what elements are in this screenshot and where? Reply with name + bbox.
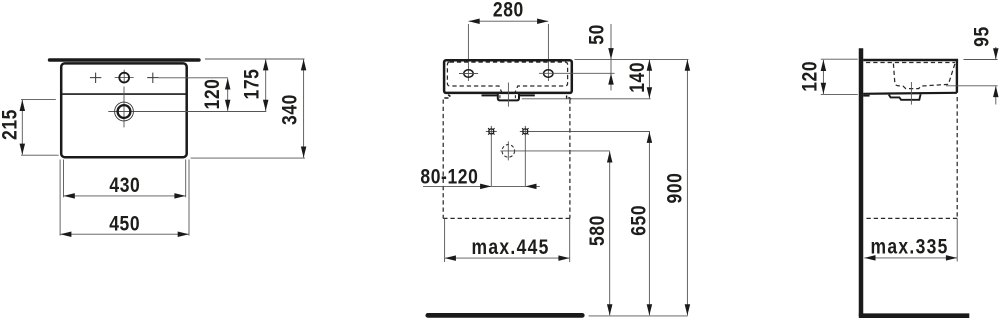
foot left front <box>448 95 450 97</box>
dim 900 arrow up <box>685 60 691 71</box>
basin front edge side <box>956 60 958 93</box>
drain axis centerline front <box>507 83 509 107</box>
dim 450 arrow left <box>60 231 71 237</box>
svg-text:900: 900 <box>664 173 687 204</box>
dim 140 arrow down <box>647 87 653 98</box>
svg-text:140: 140 <box>626 62 649 93</box>
floor bar front view <box>428 313 583 318</box>
dim 900 arrow down <box>685 304 691 315</box>
dim 340 arrow up <box>301 59 307 70</box>
drain centerline horizontal + ext to 120/175 dims <box>108 111 266 113</box>
dim 140 bottom ext <box>522 98 651 100</box>
dashed envelope right vertical side <box>956 97 958 218</box>
dashed envelope left vertical <box>442 100 444 219</box>
svg-text:450: 450 <box>109 213 140 236</box>
svg-text:120: 120 <box>799 61 822 92</box>
svg-text:120: 120 <box>202 79 225 110</box>
hidden bowl outline dashed front <box>447 62 567 93</box>
separation line tap deck <box>62 93 185 95</box>
tap hole ellipse right crosshair + ext to 50 dim <box>539 72 615 74</box>
wall bar side view <box>859 48 864 316</box>
dim 120 side arrow up <box>821 60 827 71</box>
svg-text:215: 215 <box>0 109 22 140</box>
wall lip below basin <box>863 95 869 97</box>
dim 175 arrow down <box>263 100 269 111</box>
dim 280 ext right / tap centerline <box>547 24 549 81</box>
dim 215 line <box>21 100 23 155</box>
dim 280 arrow left <box>469 18 480 24</box>
drain centerline vertical <box>123 87 125 128</box>
drain outer circle <box>115 102 134 121</box>
tap hole centerline horizontal <box>115 77 134 79</box>
dashed envelope bottom horizontal side <box>867 217 958 219</box>
dim 280 line <box>469 20 549 22</box>
svg-text:max.445: max.445 <box>472 236 550 259</box>
dim 120 side line <box>822 60 824 94</box>
dim max.335 line <box>864 257 957 259</box>
dim 80-120 arrow right-pointing <box>480 184 491 190</box>
dim 80-120 line <box>423 185 540 187</box>
svg-text:max.335: max.335 <box>871 236 949 259</box>
foot right front <box>566 96 568 99</box>
optional tap hole cross right <box>147 73 158 83</box>
floor bar side view <box>859 313 970 318</box>
solid ext left below envelope <box>444 218 446 262</box>
dim 120 side ext top <box>821 58 858 60</box>
dim 430 ext left <box>63 160 65 198</box>
dim 430 ext right <box>185 160 187 198</box>
dim 120 side ext bottom <box>821 94 858 96</box>
dim 95 line lower <box>995 86 997 104</box>
dim 215 ext top <box>21 98 56 100</box>
dim max.335 arrow left <box>864 255 875 261</box>
drain circle crosshair vertical <box>507 141 509 160</box>
dim 280 ext left / tap centerline <box>467 24 469 81</box>
svg-text:50: 50 <box>586 24 609 45</box>
dim 140 arrow up <box>647 60 653 71</box>
siphon cover front <box>498 94 519 101</box>
svg-text:650: 650 <box>628 205 651 236</box>
dim 120 arrow down <box>225 100 231 111</box>
drain circle front dashed <box>502 145 515 158</box>
bolt drop line right <box>524 137 526 187</box>
dim 120 arrow up <box>225 78 231 89</box>
hidden rim dashed top <box>866 62 955 64</box>
tap hole centerline vertical <box>123 70 125 84</box>
dim 340 ext bottom <box>191 157 305 159</box>
under-edge shadow right <box>519 94 534 96</box>
wire ext wall-top to 340 dim <box>205 58 305 60</box>
dim 120 line <box>227 78 229 111</box>
svg-text:175: 175 <box>241 69 264 100</box>
dim 280 arrow right <box>537 18 548 24</box>
dim 95 ext top <box>964 59 998 61</box>
dim 580 arrow down <box>607 304 613 315</box>
svg-text:80-120: 80-120 <box>420 166 478 189</box>
wall bar top view <box>50 58 200 61</box>
dim 50 arrow up (below) <box>608 73 614 84</box>
dim 340 line <box>303 59 305 157</box>
hidden drain pipe dashes in siphon <box>499 95 501 99</box>
dim 430 line <box>64 195 186 197</box>
svg-text:95: 95 <box>971 26 994 47</box>
dim 580 arrow up <box>607 151 613 162</box>
dim 340 arrow down <box>301 147 307 158</box>
floor thin ext line <box>589 315 688 317</box>
dim 215 ext bottom <box>21 154 59 156</box>
dim 580 line <box>609 151 611 315</box>
bolt drop line left <box>490 137 492 187</box>
hidden bowl profile dashed side <box>893 63 955 89</box>
dim 430 arrow left <box>64 193 75 199</box>
dim 175 arrow up <box>263 59 269 70</box>
drain axis centerline side <box>910 82 912 105</box>
solid ext right below envelope <box>569 218 571 262</box>
svg-text:280: 280 <box>493 0 524 22</box>
wire ext tap level to 120 dim <box>159 77 229 79</box>
dim 215 arrow down <box>20 144 26 155</box>
tap hole ellipse left crosshair <box>459 73 478 75</box>
fixing bolt left <box>486 126 497 137</box>
siphon cover side <box>889 94 921 100</box>
basin bottom edge side <box>863 93 957 94</box>
dim 450 ext left <box>59 160 61 236</box>
dim 650 arrow up <box>647 132 653 143</box>
dim 95 ext bottom <box>946 85 998 87</box>
fixing bolt right + ext to 650 dim <box>520 126 650 137</box>
svg-text:430: 430 <box>109 175 140 198</box>
dim 50 arrow down (above) <box>608 48 614 59</box>
svg-text:340: 340 <box>279 94 302 125</box>
dim max.445 arrow right <box>558 255 569 261</box>
basin top ext right to 900 dim <box>575 58 689 60</box>
drain inner circle <box>118 105 131 118</box>
svg-text:580: 580 <box>587 215 610 246</box>
dim 650 line <box>648 132 650 315</box>
dim 215 arrow up <box>20 100 26 111</box>
dim max.445 line <box>445 257 570 259</box>
dim 450 line <box>60 233 188 235</box>
dim 95 arrow down (above) <box>993 48 999 59</box>
tap hole ellipse left <box>464 70 473 77</box>
dim 900 line <box>686 60 688 316</box>
dim 450 ext right <box>188 160 190 236</box>
drain circle crosshair horizontal + ext to 580 dim <box>500 150 609 152</box>
optional tap hole cross left <box>90 73 101 83</box>
solid ext below envelope side <box>956 218 958 261</box>
tap hole ellipse right <box>544 70 553 77</box>
basin outline plan <box>61 63 187 157</box>
dim 50 line <box>610 24 612 91</box>
dim 120 side arrow down <box>821 83 827 94</box>
dim 95 arrow up (below) <box>993 86 999 97</box>
dim 95 line upper <box>995 47 997 59</box>
basin top edge side <box>863 59 958 61</box>
dim 80-120 arrow left-pointing <box>525 184 536 190</box>
basin outline front <box>444 60 572 93</box>
dim 175 line <box>265 59 267 111</box>
dim 140 line <box>648 60 650 99</box>
dashed envelope right vertical <box>569 100 571 219</box>
dim 430 arrow right <box>174 193 185 199</box>
dim max.445 arrow left <box>445 255 456 261</box>
tap hole circle <box>119 73 129 83</box>
dashed envelope bottom horizontal <box>443 217 570 219</box>
dim max.335 arrow right <box>946 255 957 261</box>
dim 450 arrow right <box>178 231 189 237</box>
under-edge shadow left <box>482 94 498 96</box>
dim 650 arrow down <box>647 304 653 315</box>
